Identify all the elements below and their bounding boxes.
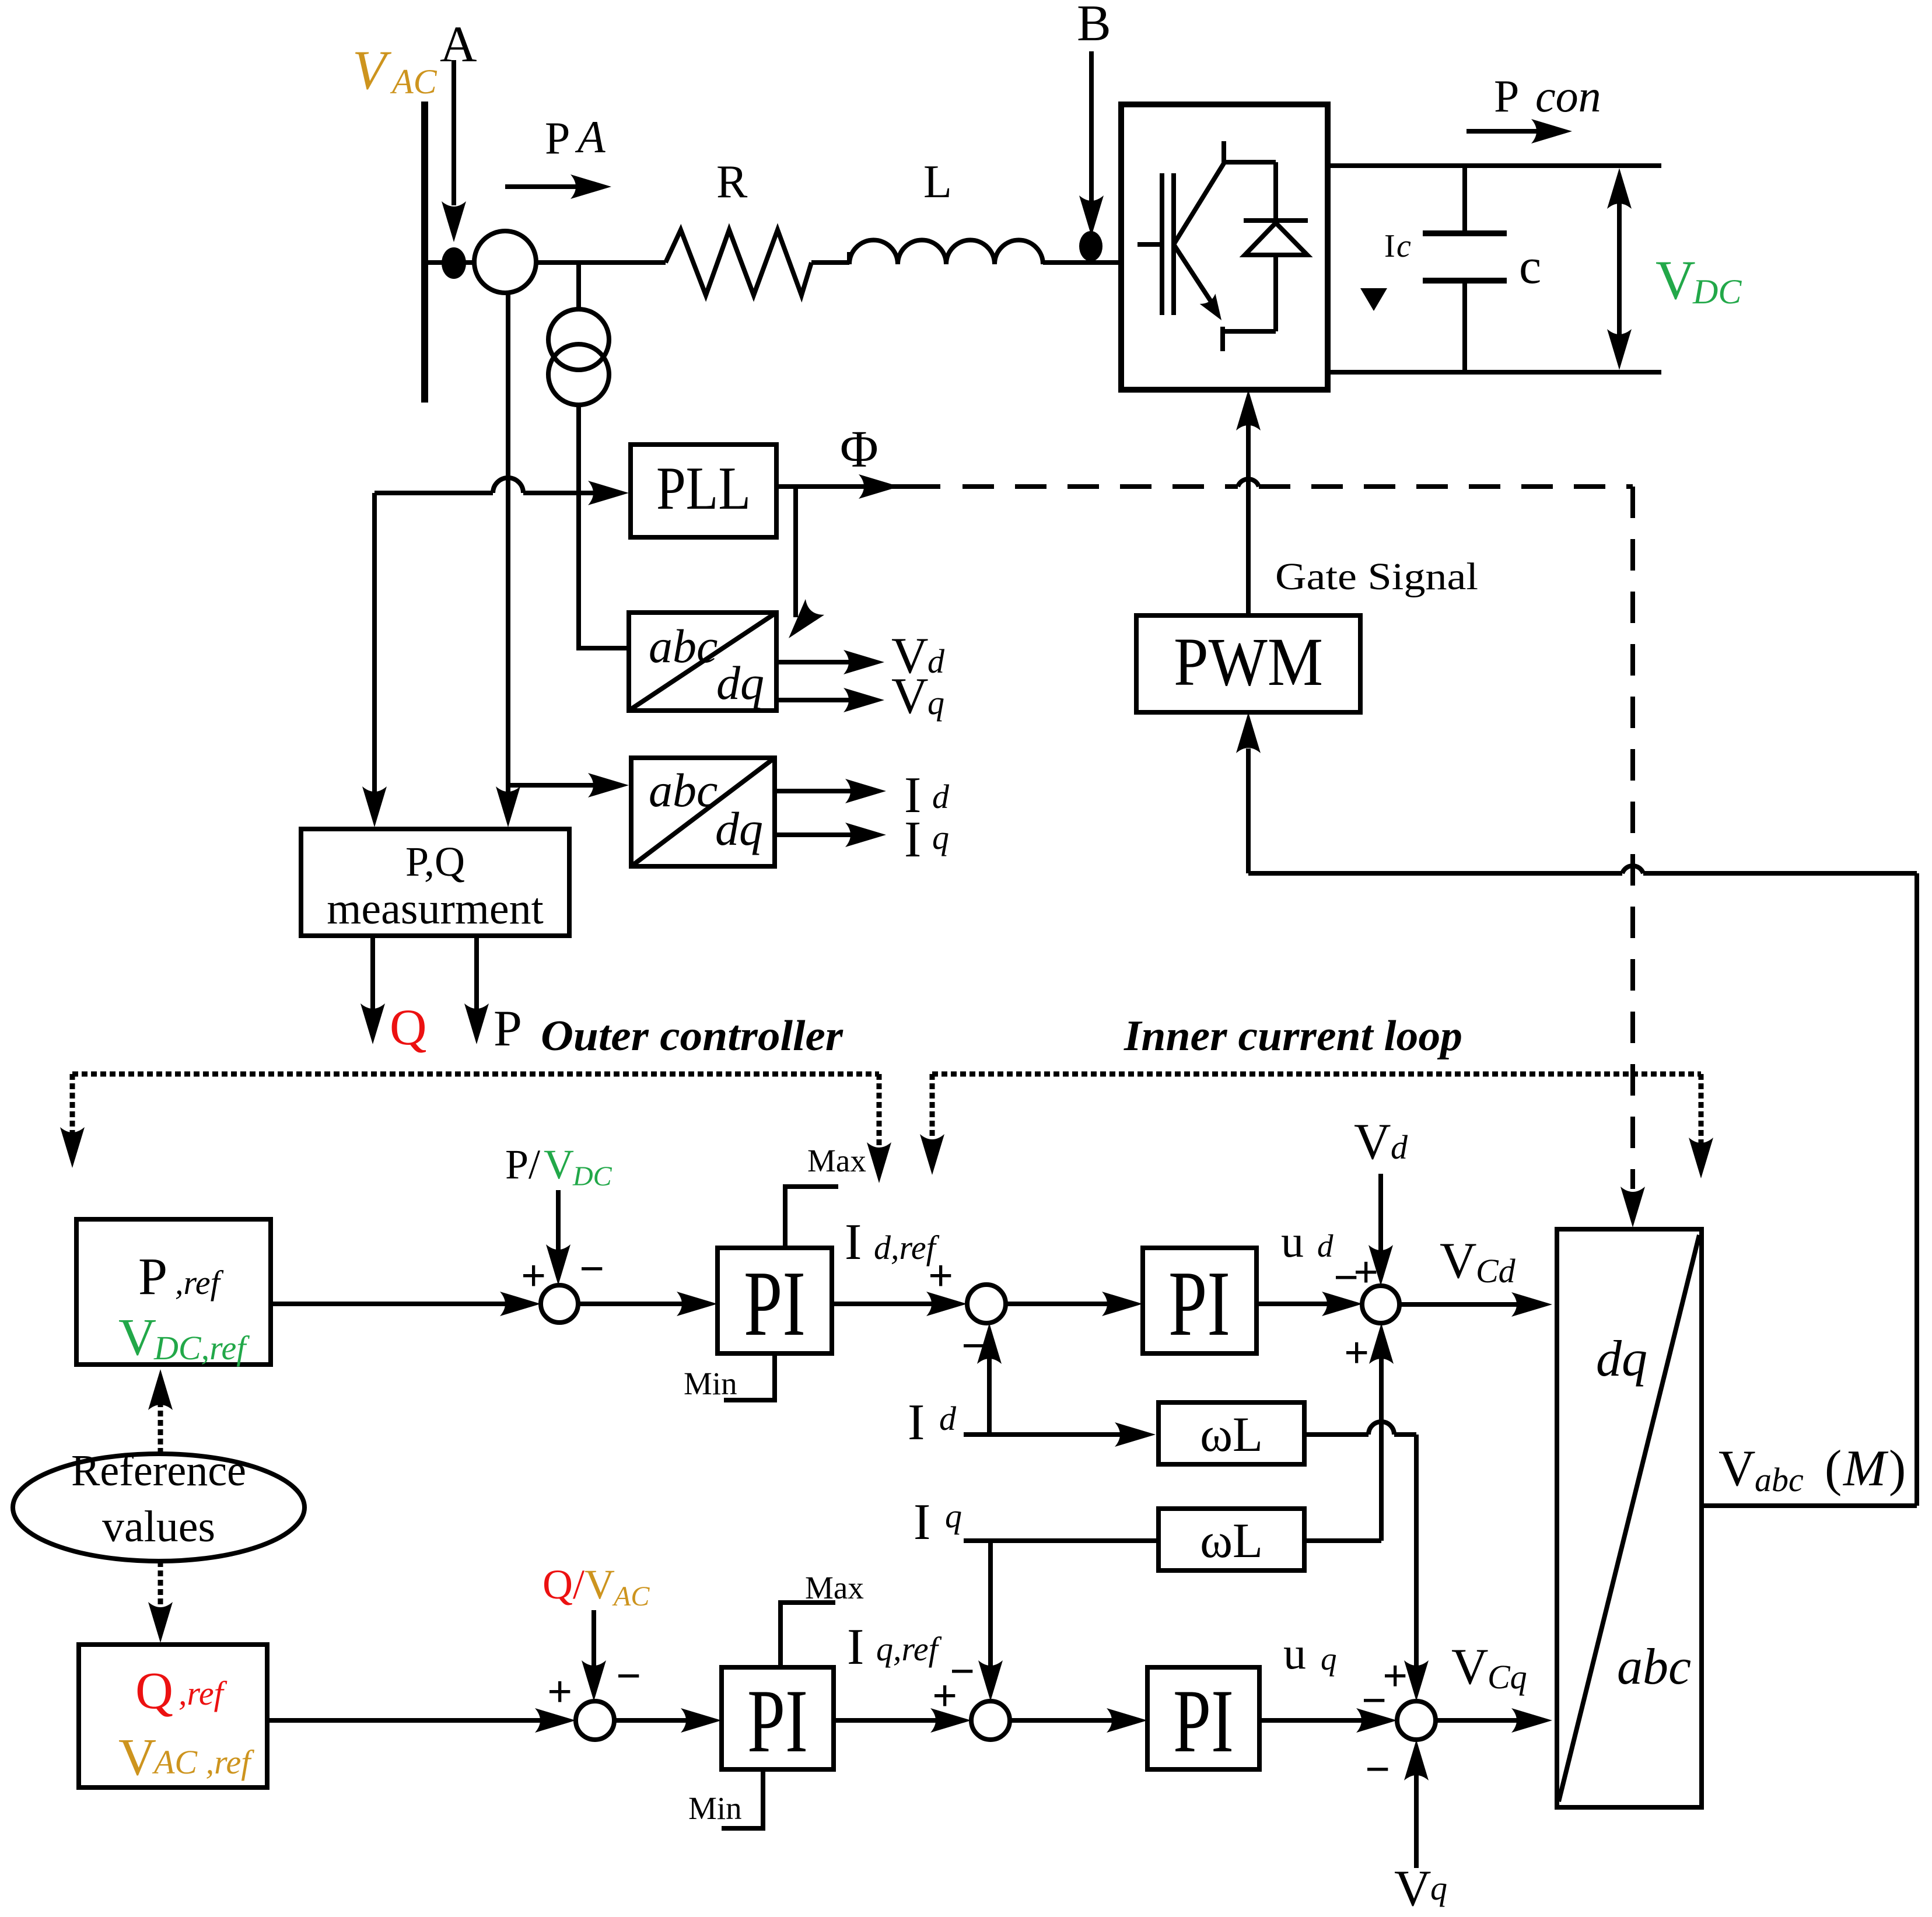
PWM box	[1136, 615, 1360, 712]
P,Q measurement box	[301, 829, 569, 936]
svg-text:I: I	[845, 1214, 862, 1271]
PI1 Max limb	[785, 1187, 838, 1248]
arrow omegaL-Iq up into sum3	[1369, 1323, 1394, 1541]
wire L to converter	[1043, 260, 1121, 265]
svg-text:P: P	[138, 1248, 167, 1306]
dotted arrow down right (inner)	[1689, 1074, 1713, 1178]
label P,ref	[138, 1248, 224, 1306]
abc/dq transform box 1	[629, 613, 776, 711]
omegaL1 box	[1158, 1402, 1304, 1464]
svg-text:d: d	[1317, 1228, 1333, 1264]
arrow Q/V_AC into sum4	[582, 1610, 606, 1701]
arrow I_q down into sum5	[978, 1541, 1003, 1701]
wire Q_ref to sum4	[267, 1708, 576, 1733]
label I_q (feedback)	[914, 1494, 962, 1551]
label Ic	[1384, 228, 1411, 264]
AC bus bar	[421, 102, 428, 403]
svg-text:V: V	[1354, 1114, 1391, 1170]
svg-text:AC ,ref: AC ,ref	[152, 1743, 254, 1781]
dotted arrow down right (outer)	[867, 1074, 891, 1183]
omegaL1 output wire (hops, goes down to sum6)	[1304, 1422, 1429, 1701]
svg-text:I: I	[1384, 228, 1395, 264]
svg-text:−: −	[616, 1652, 641, 1701]
phi feedback branch into abc/dq1	[779, 487, 824, 646]
svg-text:I: I	[914, 1494, 930, 1551]
summing node sum3	[1362, 1286, 1399, 1323]
svg-text:q: q	[945, 1497, 962, 1535]
svg-text:q: q	[1430, 1869, 1447, 1907]
node B measurement dot	[1079, 231, 1102, 261]
PWM gate signal arrow into converter	[1236, 390, 1261, 615]
DC negative rail	[1328, 370, 1661, 375]
arrow B into node	[1079, 51, 1104, 236]
svg-text:+: +	[1382, 1652, 1408, 1701]
svg-text:u: u	[1281, 1216, 1304, 1267]
omegaL2 output wire to sum3 vertical	[1304, 1538, 1381, 1543]
svg-text:Min: Min	[684, 1366, 737, 1401]
svg-text:,ref: ,ref	[178, 1674, 228, 1712]
svg-text:A: A	[575, 111, 605, 162]
label V_q	[891, 668, 944, 725]
svg-text:+: +	[1344, 1328, 1369, 1377]
converter box	[1121, 104, 1328, 390]
arrow P con	[1466, 119, 1572, 144]
arrow V_q up into sum6	[1404, 1740, 1429, 1868]
label V_Cd	[1440, 1233, 1516, 1290]
dashed phi line to PWM side (hops gate line)	[963, 479, 1633, 487]
svg-text:d: d	[928, 642, 945, 680]
svg-text:V: V	[118, 1309, 156, 1366]
wire sum5 to PI4	[1010, 1708, 1147, 1733]
PI1 box	[717, 1248, 832, 1353]
wire meter to resistor	[536, 260, 666, 265]
Q_ref / V_AC,ref box	[79, 1645, 267, 1787]
DC positive rail	[1328, 163, 1661, 168]
svg-text:I: I	[908, 1394, 925, 1451]
svg-text:P/: P/	[505, 1141, 540, 1188]
omegaL2 box	[1158, 1509, 1304, 1570]
svg-text:−: −	[950, 1647, 975, 1696]
arrow A into bus node	[442, 60, 466, 242]
svg-text:+: +	[928, 1251, 953, 1300]
svg-text:dq: dq	[1596, 1331, 1647, 1387]
wire collector to diode cathode	[1221, 160, 1276, 165]
wire PI3 to sum5	[834, 1708, 971, 1733]
capacitor C plates	[1423, 233, 1507, 281]
V_q output arrow	[776, 688, 884, 712]
svg-text:DC: DC	[572, 1161, 612, 1192]
svg-text:V: V	[584, 1561, 615, 1608]
summing node sum2	[967, 1285, 1006, 1323]
svg-text:P: P	[494, 1001, 522, 1057]
dotted arrow down left (inner)	[920, 1074, 944, 1175]
dotted arrow down left (outer)	[60, 1074, 85, 1168]
dotted outer controller feed line	[72, 1072, 879, 1077]
svg-text:c: c	[1519, 238, 1541, 294]
Reference values ellipse	[13, 1454, 304, 1561]
svg-text:P: P	[545, 113, 570, 163]
svg-text:DC,ref: DC,ref	[153, 1329, 250, 1367]
wire current branch to abc/dq2	[508, 773, 629, 797]
wire main line to voltage transformer	[576, 263, 581, 309]
label P A with arrow	[545, 111, 605, 163]
PI3 Max limb	[780, 1603, 835, 1667]
svg-text:V: V	[1440, 1233, 1477, 1289]
svg-text:I: I	[904, 811, 921, 868]
svg-text:M: M	[1842, 1440, 1889, 1497]
svg-text:dq: dq	[715, 802, 763, 855]
svg-text:Max: Max	[805, 1570, 864, 1605]
svg-text:Q: Q	[390, 999, 427, 1056]
meter circle	[474, 231, 536, 293]
svg-text:−: −	[579, 1244, 604, 1293]
PI3 box	[722, 1667, 834, 1769]
wire diode anode to emitter	[1223, 329, 1276, 334]
PWM input arrow from V_abc feedback	[1236, 712, 1261, 873]
label V_d (input)	[1354, 1114, 1408, 1170]
svg-text:PI: PI	[1168, 1251, 1230, 1355]
svg-text:d: d	[1391, 1128, 1408, 1166]
summing node sum6	[1397, 1701, 1436, 1740]
svg-text:V: V	[1394, 1860, 1431, 1917]
IGBT gate bars	[1162, 173, 1174, 315]
svg-text:Gate Signal: Gate Signal	[1275, 555, 1478, 598]
svg-text:B: B	[1077, 0, 1111, 52]
svg-text:Φ: Φ	[840, 421, 878, 478]
svg-text:q,ref: q,ref	[876, 1630, 942, 1668]
dashed phi line down to dq/abc transform	[1620, 487, 1645, 1227]
svg-text:I: I	[847, 1619, 864, 1675]
label V_DC (green)	[1655, 249, 1742, 311]
svg-text:u: u	[1283, 1628, 1306, 1678]
svg-text:V: V	[352, 39, 392, 101]
I_q output arrow	[775, 823, 886, 847]
svg-text:PI: PI	[747, 1671, 808, 1771]
resistor R	[666, 230, 811, 295]
arrow P/V_DC into sum1	[546, 1190, 570, 1285]
svg-text:PLL: PLL	[656, 454, 751, 522]
PI1 Min limb	[724, 1353, 775, 1400]
svg-text:Cd: Cd	[1476, 1252, 1516, 1290]
diode D1 cathode bar	[1244, 218, 1308, 223]
label V_abc (M)	[1718, 1440, 1906, 1499]
svg-text:+: +	[547, 1667, 572, 1716]
svg-text:PI: PI	[744, 1251, 806, 1355]
svg-text:q: q	[932, 818, 949, 856]
wire sum3 to dq/abc	[1399, 1292, 1552, 1317]
label V_d	[891, 628, 945, 684]
svg-text:abc: abc	[649, 764, 717, 817]
wire current branch down to P,Q measurement	[496, 785, 520, 827]
label V_Cq	[1451, 1639, 1527, 1696]
svg-text:PWM: PWM	[1174, 624, 1323, 700]
IGBT emitter stub	[1220, 327, 1225, 351]
svg-text:abc: abc	[1617, 1639, 1691, 1695]
svg-text:PI: PI	[1173, 1671, 1234, 1771]
label V_DC,ref (green)	[118, 1309, 250, 1367]
svg-text:q: q	[928, 684, 944, 722]
wire PI1 to sum2	[832, 1292, 967, 1316]
wire sum4 to PI3	[614, 1708, 722, 1733]
label u_d	[1281, 1216, 1333, 1267]
summing node sum1	[541, 1285, 578, 1323]
svg-text:ωL: ωL	[1200, 1407, 1263, 1462]
wire transformer down to abc/dq1	[579, 405, 629, 648]
svg-text:Min: Min	[688, 1790, 742, 1826]
svg-text:Q: Q	[135, 1662, 173, 1720]
abc/dq transform box 2	[631, 758, 775, 866]
svg-text:DC: DC	[1692, 272, 1742, 311]
inductor L	[849, 240, 1043, 264]
svg-text:Inner current loop: Inner current loop	[1123, 1012, 1462, 1060]
svg-text:V: V	[891, 668, 929, 725]
label V_AC (gold)	[352, 39, 437, 101]
svg-text:Q/: Q/	[542, 1561, 584, 1608]
arrow I_d up into sum2	[977, 1323, 1002, 1435]
wire sum2 to PI2	[1006, 1292, 1143, 1316]
summing node sum5	[971, 1701, 1010, 1740]
label V_AC,ref (gold)	[118, 1729, 254, 1786]
svg-text:AC: AC	[612, 1581, 650, 1612]
svg-text:A: A	[440, 16, 477, 73]
IGBT gate lead	[1137, 242, 1162, 247]
svg-text:L: L	[923, 156, 952, 208]
label I_d,ref	[845, 1214, 940, 1271]
IGBT emitter stroke with arrow	[1174, 244, 1229, 326]
svg-text:+: +	[521, 1251, 546, 1300]
svg-text:R: R	[716, 156, 748, 208]
wire P_ref to sum1	[271, 1292, 541, 1316]
wire node to PLL input (hops current wire)	[374, 478, 629, 505]
diode D1 triangle	[1245, 223, 1307, 255]
svg-text:P: P	[1494, 71, 1519, 121]
V_d output arrow	[776, 650, 884, 674]
svg-text:abc: abc	[649, 620, 717, 673]
label V_q (input)	[1394, 1860, 1447, 1917]
label I_d (feedback)	[908, 1394, 957, 1451]
label Q,ref (red)	[135, 1662, 228, 1720]
IGBT collector stroke	[1174, 163, 1224, 244]
label I_q,ref	[847, 1619, 942, 1675]
svg-text:V: V	[1655, 249, 1696, 311]
svg-text:V: V	[544, 1141, 574, 1188]
P output arrow	[464, 936, 489, 1044]
wire PI2 to sum3	[1256, 1292, 1363, 1316]
arrow P A	[505, 174, 611, 199]
svg-text:): )	[1889, 1440, 1906, 1497]
svg-text:Max: Max	[807, 1143, 866, 1178]
diode anode lead	[1273, 255, 1278, 331]
PLL output arrow	[776, 474, 940, 499]
svg-text:con: con	[1535, 71, 1601, 121]
svg-text:d: d	[939, 1400, 957, 1437]
svg-text:(: (	[1812, 1440, 1842, 1497]
svg-text:Cq: Cq	[1487, 1658, 1527, 1696]
arrow V_d into sum3	[1368, 1174, 1393, 1286]
I_d output arrow	[775, 779, 886, 803]
node A measurement dot	[442, 247, 466, 279]
svg-text:AC: AC	[390, 62, 437, 101]
dotted arrow ellipse to P_ref box	[148, 1369, 173, 1454]
wire bus to meter circle	[425, 260, 475, 265]
Q output arrow	[360, 936, 385, 1044]
capacitor C bottom lead	[1462, 281, 1467, 372]
svg-text:values: values	[102, 1502, 215, 1551]
wire sum6 to dq/abc	[1436, 1708, 1552, 1733]
IGBT collector stub	[1221, 141, 1226, 164]
svg-text:V: V	[1718, 1440, 1756, 1497]
label P/V_DC	[505, 1141, 612, 1192]
label u_q	[1283, 1628, 1337, 1678]
PI4 box	[1147, 1667, 1259, 1769]
svg-text:measurment: measurment	[327, 884, 543, 933]
PI3 Min limb	[722, 1769, 763, 1828]
svg-text:abc: abc	[1755, 1461, 1804, 1499]
Ic direction triangle	[1360, 288, 1387, 311]
label Q/V_AC	[542, 1561, 650, 1612]
summing node sum4	[576, 1701, 614, 1740]
svg-text:c: c	[1396, 228, 1411, 264]
diode cathode lead	[1273, 162, 1278, 221]
dotted inner current loop feed line	[932, 1072, 1701, 1077]
PI2 box	[1143, 1248, 1256, 1353]
svg-text:dq: dq	[716, 656, 764, 709]
V_DC measuring double arrow	[1607, 168, 1632, 370]
svg-text:,ref: ,ref	[175, 1264, 224, 1302]
dq/abc transform box	[1557, 1229, 1702, 1807]
svg-text:d: d	[932, 778, 950, 816]
svg-text:V: V	[1451, 1639, 1489, 1695]
P_ref / V_DC,ref box	[76, 1219, 271, 1365]
wire sum1 to PI1	[578, 1292, 717, 1316]
wire PI4 to sum6	[1259, 1708, 1397, 1733]
capacitor C top lead	[1462, 166, 1467, 233]
wire I_d to omegaL1	[964, 1422, 1156, 1447]
svg-text:Outer controller: Outer controller	[541, 1012, 843, 1060]
wire current measurement down from meter	[506, 293, 510, 785]
wire voltage branch down to P,Q measurement	[362, 493, 387, 827]
dotted arrow ellipse to Q_ref box	[148, 1561, 173, 1643]
label I_q out	[904, 811, 949, 868]
wire I_q to omegaL2	[964, 1538, 1158, 1543]
svg-text:P,Q: P,Q	[405, 838, 465, 885]
label I_d out	[904, 767, 950, 824]
svg-text:ωL: ωL	[1200, 1513, 1263, 1568]
svg-text:−: −	[1365, 1745, 1390, 1794]
svg-text:q: q	[1321, 1641, 1337, 1677]
svg-text:V: V	[118, 1729, 156, 1786]
label P con with arrow	[1494, 71, 1601, 121]
voltage transformer circles	[548, 309, 609, 405]
svg-text:+: +	[1353, 1248, 1378, 1297]
V_abc feedback line (hops dashed phi line)	[1248, 866, 1917, 1506]
wire R to L	[811, 260, 849, 265]
PLL box	[631, 445, 776, 537]
